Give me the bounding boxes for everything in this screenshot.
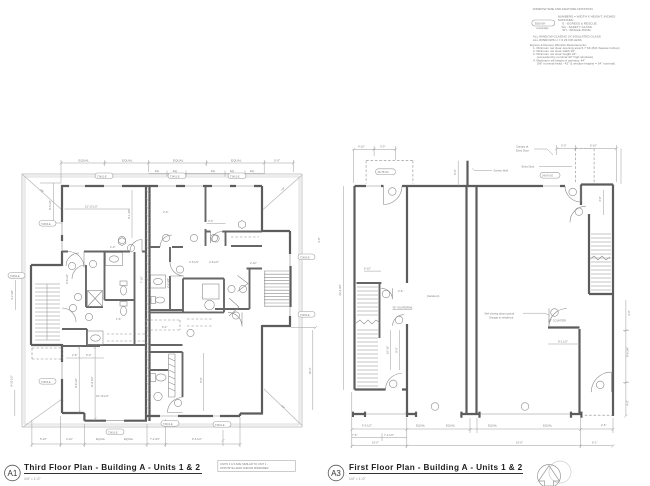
svg-text:9'-0": 9'-0"	[395, 347, 399, 352]
svg-text:2'-8": 2'-8"	[72, 353, 77, 357]
svg-text:6'-9 1/2": 6'-9 1/2"	[362, 424, 372, 428]
svg-text:T3401-E: T3401-E	[163, 423, 173, 426]
svg-text:1/4" = 1'-0": 1/4" = 1'-0"	[349, 477, 366, 481]
svg-text:Entry Door: Entry Door	[516, 149, 529, 153]
svg-text:2'-0": 2'-0"	[110, 245, 115, 249]
svg-text:T2450-E: T2450-E	[300, 314, 310, 317]
svg-text:T3401-E: T3401-E	[215, 424, 225, 427]
svg-text:11'-8 1/2": 11'-8 1/2"	[90, 376, 94, 387]
svg-text:7'-4 1/2": 7'-4 1/2"	[384, 433, 394, 437]
svg-text:9'-6": 9'-6"	[199, 377, 203, 382]
svg-text:OPPOSITE HAND AND/OR MIRRORED: OPPOSITE HAND AND/OR MIRRORED	[220, 466, 269, 470]
svg-text:4'-0": 4'-0"	[626, 400, 630, 405]
svg-text:16'-0": 16'-0"	[308, 368, 312, 375]
svg-text:9'-1 3/4": 9'-1 3/4"	[127, 209, 131, 219]
svg-text:EQ.: EQ.	[173, 169, 178, 173]
svg-text:5'-0": 5'-0"	[274, 159, 280, 163]
svg-text:2'-6": 2'-6"	[601, 423, 606, 427]
svg-text:ALL WINDOWS U = 0.29 OR LESS: ALL WINDOWS U = 0.29 OR LESS	[533, 38, 582, 42]
svg-text:EQUAL: EQUAL	[79, 159, 90, 163]
svg-text:4'-2 3/4": 4'-2 3/4"	[10, 290, 14, 300]
svg-text:EQ.: EQ.	[230, 169, 235, 173]
svg-text:EQUAL: EQUAL	[122, 159, 133, 163]
svg-text:EQ.: EQ.	[250, 169, 255, 173]
svg-text:6'-1": 6'-1"	[592, 441, 597, 445]
svg-text:A3: A3	[331, 469, 341, 478]
svg-text:T3401-E: T3401-E	[170, 175, 180, 178]
svg-text:A1: A1	[8, 469, 18, 478]
svg-text:2'-2 3/4": 2'-2 3/4"	[166, 278, 170, 288]
svg-text:15'-10 1/2": 15'-10 1/2"	[96, 394, 109, 398]
svg-text:EQUAL: EQUAL	[124, 437, 134, 441]
svg-text:24x78-SG: 24x78-SG	[378, 171, 389, 174]
svg-text:(96" nominal head - 42" & wind: (96" nominal head - 42" & window heights…	[537, 61, 615, 65]
svg-text:7'-2 3/4": 7'-2 3/4"	[150, 437, 160, 441]
svg-text:8'-1 1/2": 8'-1 1/2"	[558, 340, 568, 344]
svg-text:9'-6 1/2": 9'-6 1/2"	[192, 437, 202, 441]
svg-text:EQUAL: EQUAL	[173, 159, 184, 163]
svg-text:SH - SINGLE-HUNG: SH - SINGLE-HUNG	[562, 28, 591, 32]
svg-text:UNITS 3 & 5 ARE SIMILAR TO UNI: UNITS 3 & 5 ARE SIMILAR TO UNIT 1 -	[220, 462, 268, 466]
svg-text:EQUAL: EQUAL	[231, 159, 242, 163]
svg-text:15'-10 1/2": 15'-10 1/2"	[85, 205, 98, 209]
svg-text:HIP: HIP	[39, 189, 44, 194]
svg-text:3'-0": 3'-0"	[627, 310, 631, 315]
svg-text:8'-10 1/2": 8'-10 1/2"	[9, 375, 13, 386]
svg-text:2'-6": 2'-6"	[398, 289, 403, 293]
svg-text:8'-5 1/2": 8'-5 1/2"	[48, 200, 52, 210]
svg-text:HIP: HIP	[281, 187, 286, 192]
svg-text:T3401-E: T3401-E	[230, 175, 240, 178]
svg-text:EQUAL: EQUAL	[543, 424, 553, 428]
svg-text:3050-SH: 3050-SH	[535, 21, 546, 25]
svg-text:9'-6 3/4": 9'-6 3/4"	[626, 347, 630, 357]
svg-text:6'-0": 6'-0"	[86, 353, 91, 357]
svg-text:1/4" = 1'-0": 1/4" = 1'-0"	[24, 477, 41, 481]
svg-text:4'-6": 4'-6"	[598, 196, 602, 201]
svg-text:EQUAL: EQUAL	[446, 424, 456, 428]
svg-text:Screen Wall: Screen Wall	[494, 169, 509, 173]
svg-text:4'-6 1/2": 4'-6 1/2"	[189, 260, 199, 264]
svg-text:4'-8 1/2": 4'-8 1/2"	[209, 260, 219, 264]
svg-text:EQUAL: EQUAL	[96, 437, 106, 441]
svg-text:16'-0": 16'-0"	[372, 441, 379, 445]
svg-text:2'-10": 2'-10"	[250, 261, 257, 265]
svg-text:EQUAL: EQUAL	[416, 424, 426, 428]
svg-text:7'-10": 7'-10"	[140, 277, 144, 284]
svg-text:Entry Door: Entry Door	[522, 165, 535, 169]
svg-text:2'-0": 2'-0"	[163, 210, 168, 214]
svg-text:3'-0": 3'-0"	[380, 145, 385, 149]
svg-text:6'-10": 6'-10"	[364, 267, 371, 271]
svg-text:First Floor Plan - Building A: First Floor Plan - Building A - Units 1 …	[349, 463, 523, 472]
svg-text:4'-10": 4'-10"	[66, 437, 73, 441]
svg-text:WINDOW SIZE AND FEATURE NOTATI: WINDOW SIZE AND FEATURE NOTATION	[533, 7, 593, 11]
svg-text:5'-8 1/2": 5'-8 1/2"	[65, 274, 69, 284]
svg-text:6'-4": 6'-4"	[162, 325, 167, 329]
svg-text:T2450-E: T2450-E	[300, 256, 310, 259]
svg-text:28" COUNTER: 28" COUNTER	[548, 319, 566, 323]
svg-text:EQ.: EQ.	[155, 169, 160, 173]
svg-text:9'-8 1/2": 9'-8 1/2"	[74, 378, 78, 388]
svg-text:2'-0": 2'-0"	[561, 144, 566, 148]
svg-text:10'-10": 10'-10"	[386, 346, 390, 354]
svg-text:T2450-E: T2450-E	[10, 275, 20, 278]
svg-text:4'-6": 4'-6"	[317, 237, 321, 242]
svg-text:T3401-E: T3401-E	[97, 175, 107, 178]
svg-text:23'-4 3/4": 23'-4 3/4"	[338, 284, 342, 295]
svg-text:7'-6": 7'-6"	[352, 433, 357, 437]
svg-text:1'-6": 1'-6"	[116, 317, 121, 321]
svg-text:3'-0": 3'-0"	[208, 219, 213, 223]
svg-text:36" GUARDRAIL: 36" GUARDRAIL	[393, 306, 414, 310]
svg-text:Garage to residence: Garage to residence	[489, 316, 514, 320]
svg-text:(tandem): (tandem)	[427, 294, 439, 298]
svg-text:EQ.: EQ.	[211, 169, 216, 173]
svg-text:Third Floor Plan - Building A: Third Floor Plan - Building A - Units 1 …	[24, 463, 200, 472]
svg-text:Canopy at: Canopy at	[516, 145, 529, 149]
svg-text:5'-10": 5'-10"	[40, 437, 47, 441]
svg-text:T3401-E: T3401-E	[108, 431, 118, 434]
svg-text:(example): (example)	[537, 26, 549, 30]
svg-text:16'-0": 16'-0"	[516, 441, 523, 445]
svg-text:6'-0": 6'-0"	[453, 169, 457, 174]
svg-text:EQUAL: EQUAL	[488, 424, 498, 428]
svg-text:24x78-SG: 24x78-SG	[542, 175, 553, 178]
svg-text:T2450-E: T2450-E	[41, 381, 51, 384]
svg-text:Self-closing doors typical: Self-closing doors typical	[484, 312, 514, 316]
svg-text:4'-10": 4'-10"	[358, 145, 365, 149]
svg-text:6'-10": 6'-10"	[590, 144, 597, 148]
svg-text:T2450-E: T2450-E	[41, 223, 51, 226]
